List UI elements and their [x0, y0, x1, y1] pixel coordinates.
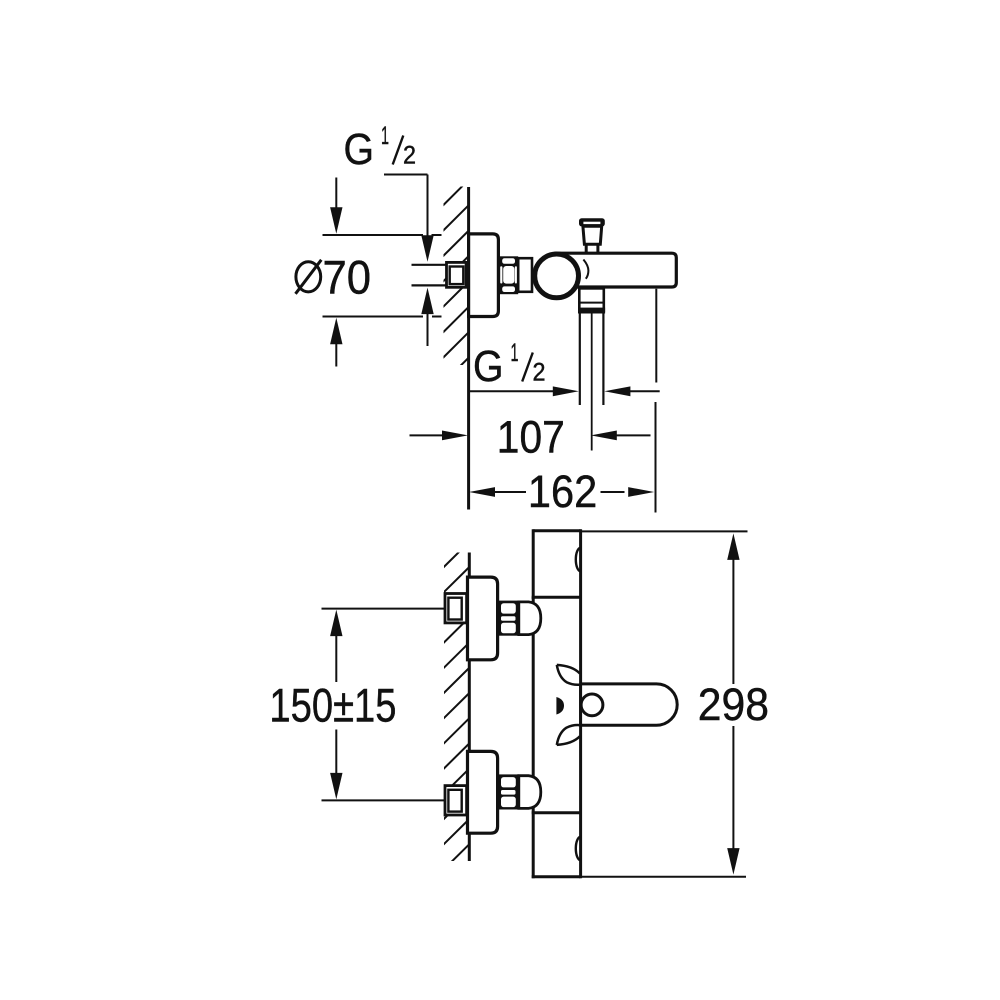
- shower hose outline: [579, 312, 581, 405]
- spout outlet circle: [581, 694, 603, 716]
- label Ø70: [296, 262, 321, 292]
- lower union dome: [519, 776, 541, 809]
- upper hex nut (lower view): [499, 601, 519, 636]
- upper square wall union (lower view): [445, 594, 467, 623]
- upper union dome: [519, 602, 541, 635]
- body edge through spout root: [579, 684, 582, 725]
- svg-text:162: 162: [528, 466, 597, 517]
- dimension 107: [410, 434, 445, 436]
- diverter knob cap: [579, 218, 605, 226]
- square wall union (top view): [447, 262, 467, 287]
- svg-text:2: 2: [533, 359, 546, 387]
- dimension G 1/2 hose width: [469, 390, 554, 392]
- svg-text:2: 2: [403, 142, 416, 170]
- dimension arrows Ø70: [335, 178, 337, 211]
- connector between nut and cartridge (top view): [518, 258, 532, 292]
- upper spout leaf: [557, 665, 580, 674]
- upper wall flange (lower view): [468, 577, 498, 660]
- label G 1/2 (hose union): [473, 339, 546, 391]
- body cap top (lower view): [533, 529, 580, 532]
- lower hex nut (lower view): [499, 774, 519, 809]
- inlet pipe lines (top view): [412, 264, 448, 266]
- spout stadium outline (lower view): [581, 684, 678, 725]
- dimension extension lines 298: [581, 530, 748, 532]
- svg-text:107: 107: [497, 412, 565, 463]
- hose union nut (top view): [579, 288, 604, 312]
- lower wall flange (lower view): [468, 751, 498, 833]
- label G 1/2 (wall union, top view): [344, 122, 417, 174]
- hex union nut (top view): [498, 256, 518, 294]
- lower square wall union (lower view): [445, 786, 467, 815]
- svg-text:1: 1: [381, 122, 389, 150]
- diverter knob stem (top view): [585, 244, 588, 252]
- svg-text:G: G: [344, 125, 375, 174]
- svg-text:70: 70: [323, 252, 372, 305]
- diverter knob neck: [583, 226, 602, 244]
- svg-text:1: 1: [511, 339, 519, 367]
- dimension extension lines for Ø70 (flange edges extended): [323, 235, 442, 317]
- screw detail arc top: [576, 548, 581, 571]
- leader + arrows for G 1/2 inlet height: [384, 175, 428, 347]
- dimension 298: [727, 533, 739, 560]
- dimension 162: [469, 487, 495, 497]
- lower spout leaf: [557, 736, 580, 745]
- screw detail arc bottom: [576, 837, 581, 860]
- body shoulder arc right of handle: [583, 260, 588, 279]
- svg-text:298: 298: [698, 679, 769, 730]
- wall line (top view): [467, 187, 470, 510]
- mixer body (top view): [556, 253, 676, 287]
- spout outlet extension line: [655, 289, 657, 383]
- svg-text:G: G: [473, 342, 504, 391]
- body left edge (lower view): [532, 597, 535, 813]
- wall line (lower view): [468, 553, 471, 862]
- dimension extension lines 150±15: [322, 608, 446, 610]
- wall flange escutcheon (top view): [469, 234, 499, 317]
- dimension arrows 150±15: [330, 610, 342, 637]
- body cap bottom (lower view): [532, 811, 581, 814]
- thermostat handle circle (top view): [535, 254, 579, 298]
- handle notch blob: [556, 697, 564, 715]
- hose centre line: [591, 312, 593, 450]
- body right edge (lower view): [579, 529, 582, 878]
- svg-text:150±15: 150±15: [269, 679, 396, 732]
